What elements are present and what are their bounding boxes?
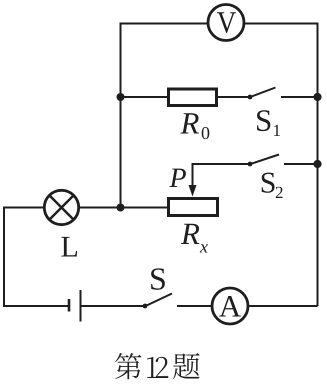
slider P label: [169, 169, 186, 187]
switch S1 blade: [249, 88, 276, 98]
ammeter A letter: [219, 296, 241, 316]
junction dot right rail / S1 branch: [313, 93, 321, 101]
voltmeter U-V circle: [208, 5, 244, 41]
caption character ti (题): [173, 353, 200, 379]
wire middle-left vertical rail: [120, 23, 122, 208]
switch S blade: [145, 294, 173, 307]
wire right rail vertical: [317, 23, 319, 307]
wire S2 branch horizontal: [193, 163, 250, 165]
switch S2 blade: [249, 155, 279, 165]
wire from S2 contact to right rail: [284, 163, 318, 165]
resistor R0 label: [180, 113, 199, 133]
battery long plate: [80, 290, 82, 322]
wire left edge vertical: [3, 207, 5, 307]
lamp L cross stroke 1: [49, 195, 73, 219]
junction dot right rail / S2 branch: [313, 160, 321, 168]
switch S2 subscript 2: [276, 187, 283, 198]
wire top right from voltmeter to right rail: [245, 23, 318, 25]
wire ammeter to right rail: [248, 305, 318, 307]
wire top left horizontal to voltmeter: [121, 23, 209, 25]
switch S1 label S: [257, 110, 270, 131]
wire slider stem from S2 corner down: [192, 163, 194, 186]
switch S1 pivot dot: [248, 95, 253, 100]
caption character di (第): [115, 353, 141, 379]
switch S2 label S: [262, 173, 275, 193]
wire bottom left to battery: [3, 305, 68, 307]
wire battery to switch S: [82, 305, 146, 307]
lamp L label: [61, 237, 77, 257]
rheostat Rx subscript x: [200, 244, 208, 252]
rheostat Rx box: [169, 199, 218, 216]
wire from R0 to switch S1: [217, 96, 249, 98]
wire switch S to ammeter: [177, 305, 213, 307]
switch S2 pivot dot: [248, 162, 253, 167]
battery short plate: [68, 299, 71, 312]
lamp L circle: [44, 190, 78, 224]
rheostat Rx label R: [181, 224, 200, 244]
wire from S1 contact to right rail: [281, 96, 318, 98]
caption digit 1: [147, 357, 157, 378]
wire from left rail to R0: [121, 96, 169, 98]
slider arrowhead onto rheostat: [189, 185, 197, 197]
switch S1 subscript 1: [274, 125, 280, 136]
resistor R0 subscript 0: [202, 127, 210, 139]
wire from left edge to lamp: [4, 207, 45, 209]
switch S label: [151, 268, 165, 290]
lamp L cross stroke 2: [49, 195, 73, 219]
ammeter U-A circle: [212, 288, 248, 324]
junction dot left rail / R0 branch: [117, 93, 125, 101]
junction dot left rail / lamp wire: [117, 204, 125, 212]
wire from lamp to rheostat: [78, 207, 167, 209]
voltmeter V letter: [217, 12, 236, 33]
resistor R0 box: [169, 89, 217, 106]
switch S pivot dot: [143, 304, 148, 309]
caption digit 2: [156, 357, 169, 378]
